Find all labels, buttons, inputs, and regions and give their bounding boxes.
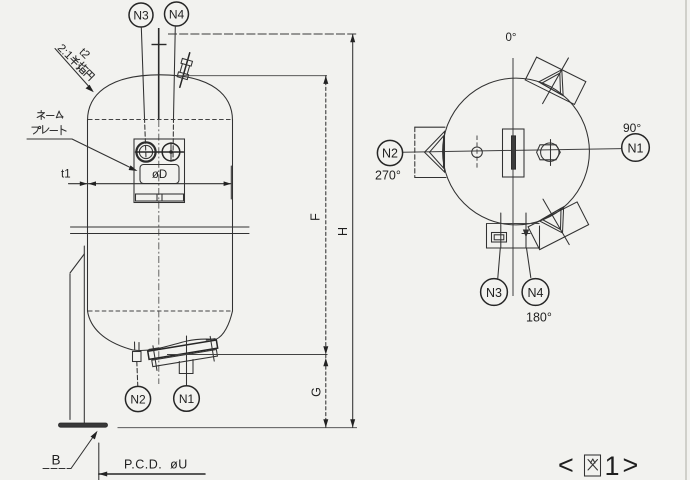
- N3 leader line: [141, 27, 146, 158]
- ム: [56, 111, 63, 118]
- bottom tangent line: [88, 310, 232, 312]
- svg-text:N4: N4: [169, 8, 185, 22]
- svg-text:N4: N4: [528, 286, 544, 300]
- svg-text:øD: øD: [152, 169, 167, 181]
- svg-text:N1: N1: [179, 392, 195, 406]
- svg-text:N3: N3: [486, 286, 502, 300]
- svg-text:t1: t1: [61, 169, 71, 181]
- small fitting with vertical axis: [472, 136, 483, 169]
- leg: [70, 246, 84, 423]
- head thickness leader t2: [55, 33, 104, 92]
- bottom band: [136, 194, 184, 201]
- kanji 円: [84, 70, 95, 81]
- vertical centerline plan: [512, 58, 514, 296]
- プ: [32, 126, 41, 133]
- vessel centerline: [152, 28, 167, 384]
- bottom flange assembly: [147, 336, 220, 372]
- 270 deg nozzle left (N2): [415, 127, 446, 177]
- ト: [61, 126, 66, 135]
- svg-text:N3: N3: [133, 9, 149, 23]
- left top-nozzle flange circle: [136, 142, 155, 161]
- nameplate label text: [32, 111, 66, 135]
- manway cover plate assembly: [134, 139, 185, 203]
- 135 deg nozzle bottom-right: [519, 185, 594, 259]
- svg-text:N2: N2: [130, 393, 146, 407]
- nozzle balloon N4 plan: [522, 279, 549, 306]
- hex coupling fitting: [537, 140, 561, 166]
- F extension line top: [177, 75, 328, 77]
- N4 leader line: [173, 26, 175, 160]
- nozzle balloon N4: [165, 2, 189, 26]
- nozzle balloon N3 plan: [481, 279, 508, 306]
- right top-nozzle flange circle: [162, 143, 180, 161]
- svg-text:90°: 90°: [623, 121, 641, 135]
- G dimension line: [310, 355, 329, 428]
- kanji 半: [69, 55, 81, 67]
- svg-text:H: H: [336, 227, 350, 236]
- H dimension line: [336, 34, 355, 428]
- N4 fitting plan: [522, 213, 531, 278]
- N3 line plan: [498, 213, 501, 278]
- svg-text:N1: N1: [628, 141, 644, 155]
- shell left wall: [87, 120, 89, 312]
- nozzle balloon N1: [174, 386, 200, 412]
- figure label Zu 1: [558, 450, 638, 480]
- H extension line top: [168, 33, 357, 35]
- support ring: [71, 227, 250, 234]
- svg-text:1: 1: [605, 451, 620, 480]
- bottom connection box 180deg: [487, 224, 540, 249]
- 2:1 ellipse head: [88, 75, 233, 121]
- central slot fitting: [503, 129, 525, 177]
- shell circle plan: [443, 78, 590, 225]
- ネ: [37, 111, 44, 120]
- top tilted nozzle on head: [175, 51, 195, 88]
- svg-text:0°: 0°: [506, 32, 517, 44]
- nozzle N2 stub: [133, 342, 142, 362]
- svg-text:<: <: [558, 450, 574, 480]
- nozzle balloon N1 plan: [622, 134, 650, 162]
- ー: [47, 115, 55, 117]
- base plate: [59, 423, 108, 427]
- svg-text:N2: N2: [382, 147, 398, 161]
- anchor bolt leader B: [43, 431, 98, 469]
- svg-text:180°: 180°: [526, 311, 552, 325]
- F dimension line: [309, 76, 329, 355]
- nozzle balloon N2 plan: [377, 140, 402, 165]
- nozzle balloon N3: [129, 3, 153, 27]
- svg-text:F: F: [309, 213, 323, 221]
- nozzle balloon N2: [125, 386, 150, 411]
- shell right wall: [232, 120, 234, 312]
- svg-text:270°: 270°: [375, 169, 401, 183]
- floor extension line: [118, 427, 358, 429]
- G extension line top: [167, 354, 328, 356]
- kanji Zu box: [585, 455, 601, 476]
- top tangent line: [88, 119, 232, 121]
- N1 centerline through flange: [186, 336, 188, 386]
- P.C.D. dimension: [99, 443, 205, 480]
- scan edge line right: [685, 0, 687, 480]
- nameplate: [140, 165, 179, 184]
- kanji 楕: [75, 61, 89, 75]
- bottom dished head: [88, 311, 233, 350]
- nameplate leader: [27, 139, 138, 171]
- svg-text:B: B: [52, 453, 61, 468]
- diameter dimension line: [69, 166, 232, 199]
- nozzle N1 neck: [179, 360, 193, 374]
- レ: [43, 126, 49, 134]
- svg-text:>: >: [623, 450, 639, 480]
- N2 leader: [137, 362, 138, 387]
- ー: [50, 130, 58, 132]
- horizontal centerline plan: [403, 149, 622, 153]
- svg-text:P.C.D. øU: P.C.D. øU: [124, 458, 188, 472]
- svg-text:G: G: [310, 387, 324, 397]
- horizontal line through circles: [136, 151, 184, 153]
- 45 deg nozzle top-right: [518, 44, 593, 117]
